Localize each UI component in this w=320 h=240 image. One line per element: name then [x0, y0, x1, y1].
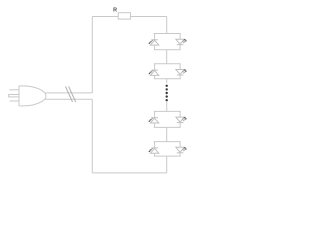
- wire: spine stub above block3: [166, 102, 168, 111]
- wire: top rail left segment: [92, 16, 118, 18]
- wire: spine down to bottom rail: [166, 156, 168, 173]
- LED D4 (down-conducting, right): [176, 64, 184, 79]
- cord break symbol (double slash): [66, 87, 76, 103]
- LED D2 emission arrows: [182, 39, 187, 43]
- resistor R: [118, 13, 130, 19]
- plug prong (top blade): [10, 89, 20, 91]
- LED D2 (down-conducting, right): [176, 34, 184, 50]
- LED D7 emission arrows: [149, 148, 154, 152]
- label R: [113, 8, 117, 14]
- LED pair block 4 : bottom bus: [154, 155, 181, 157]
- LED pair block 1 : bottom bus: [154, 49, 181, 51]
- LED D7 (up-conducting, left): [150, 142, 158, 157]
- wire: cord bottom conductor: [45, 98, 92, 100]
- LED pair block 3 : top bus: [154, 110, 181, 112]
- LED D4 emission arrows: [182, 69, 187, 73]
- LED D8 (down-conducting, right): [176, 142, 184, 157]
- LED D1 emission arrows: [149, 40, 154, 44]
- LED D8 emission arrows: [182, 147, 187, 151]
- wire: bottom rail: [92, 172, 166, 174]
- svg-text:R: R: [113, 8, 117, 14]
- LED D3 emission arrows: [149, 70, 154, 74]
- LED pair block 4 : top bus: [154, 141, 181, 143]
- LED D1 (up-conducting, left): [150, 34, 158, 50]
- ellipsis dots (repeated LED pairs): [166, 85, 168, 102]
- wire: right spine down to LED pair 1: [166, 17, 168, 34]
- LED D3 (up-conducting, left): [150, 64, 158, 79]
- wire: top rail right segment: [131, 16, 167, 18]
- wire: cord top conductor: [46, 92, 93, 94]
- LED pair block 2 : bottom bus: [154, 78, 181, 80]
- LED pair block 1 : top bus: [154, 33, 181, 35]
- LED D5 (up-conducting, left): [150, 111, 158, 127]
- LED D5 emission arrows: [149, 118, 154, 122]
- wire: spine between block1 and block2: [166, 50, 168, 64]
- LED pair block 3 : bottom bus: [154, 126, 181, 128]
- LED D6 emission arrows: [182, 117, 187, 121]
- plug P1 body: [19, 86, 46, 106]
- plug prong (bottom blade): [10, 100, 20, 102]
- LED pair block 2 : top bus: [154, 63, 181, 65]
- LED D6 (down-conducting, right): [176, 111, 184, 127]
- wire: left riser up to top rail: [91, 17, 93, 93]
- wire: left riser down from cord bottom conductor: [91, 99, 93, 173]
- wire: spine between block3 and block4: [166, 127, 168, 141]
- plug prong (middle pin): [9, 95, 19, 97]
- wire: spine stub below block2: [166, 79, 168, 84]
